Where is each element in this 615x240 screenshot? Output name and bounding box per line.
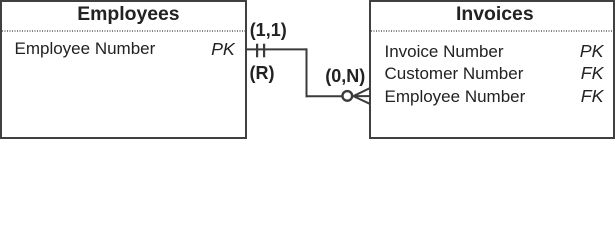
- crow's foot: [353, 88, 369, 103]
- wire: horizontal from Employees to corner: [246, 48, 308, 50]
- key FK (Employee Number): [500, 88, 604, 106]
- key PK (Employees): [150, 41, 235, 59]
- entity box Invoices: [369, 0, 615, 139]
- wire: vertical segment: [306, 48, 308, 97]
- attribute Employee Number (Invoices): [385, 88, 526, 105]
- optional-many circle: [342, 91, 352, 101]
- label (1,1): [250, 21, 287, 39]
- label (R): [250, 64, 275, 82]
- key FK (Customer Number): [500, 65, 604, 83]
- entity box Employees: [0, 0, 247, 139]
- cardinality tick 1: [256, 44, 258, 58]
- relationship connector SVG: [0, 0, 615, 139]
- cardinality tick 2: [263, 44, 265, 58]
- key PK (Invoices): [500, 43, 604, 61]
- attribute Employee Number: [15, 40, 156, 57]
- attribute Customer Number: [385, 65, 524, 82]
- separator dotted line (Employees): [2, 30, 245, 32]
- entity Invoices title: [456, 5, 534, 24]
- wire: horizontal to circle: [306, 95, 342, 97]
- entity Employees title: [77, 5, 179, 24]
- label (0,N): [325, 67, 365, 85]
- attribute Invoice Number: [385, 43, 504, 60]
- separator dotted line (Invoices): [371, 30, 613, 32]
